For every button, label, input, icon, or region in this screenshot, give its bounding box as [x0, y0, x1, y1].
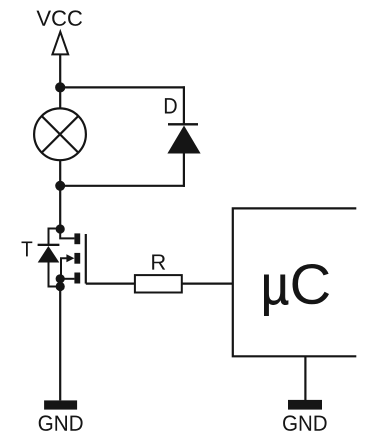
node E body-diode junction dot: [56, 282, 65, 291]
wire node B to diode branch bottom: [60, 185, 185, 187]
wire diode branch upper: [183, 86, 185, 124]
label D: [165, 98, 177, 113]
ground symbol left: [44, 400, 77, 409]
wire lamp to node B: [59, 160, 61, 186]
label uC glyph C: [293, 264, 330, 304]
transistor T gate plate: [85, 234, 87, 284]
wire source node to ground: [59, 287, 61, 401]
resistor R: [135, 275, 182, 292]
transistor T channel segment middle: [74, 253, 80, 264]
transistor T source lead: [60, 278, 74, 280]
label R: [152, 255, 165, 270]
lamp L1: [34, 108, 86, 160]
body diode of T (cathode up): [38, 246, 60, 263]
wire node A to diode branch top: [60, 86, 185, 88]
transistor T drain lead: [60, 229, 74, 238]
transistor T channel segment source: [74, 273, 80, 284]
wire body-diode top stub: [49, 229, 61, 245]
power symbol VCC (open arrow): [52, 32, 68, 55]
wire gate to resistor R: [86, 283, 135, 285]
wire node B to transistor drain node: [59, 186, 61, 229]
wire body-diode bottom stub: [49, 263, 61, 287]
wire node A to lamp: [59, 87, 61, 109]
wire uC to ground: [304, 356, 306, 400]
label T: [22, 242, 33, 257]
ground symbol right: [288, 400, 322, 410]
body diode cathode bar: [38, 244, 60, 246]
node A junction dot: [55, 82, 65, 92]
transistor T channel segment drain: [74, 233, 80, 244]
node B junction dot: [55, 181, 65, 191]
node D source junction dot: [56, 274, 65, 283]
label uC glyph micro: [264, 275, 288, 316]
label GND right: [283, 415, 327, 431]
label GND left: [39, 415, 83, 431]
diode D (freewheel, cathode up): [167, 126, 200, 154]
diode D cathode bar: [168, 123, 198, 125]
transistor T body lead: [61, 258, 68, 279]
transistor T body arrow: [66, 254, 74, 262]
wire VCC arrow to node A: [59, 54, 61, 87]
net label VCC: [37, 10, 83, 26]
wire resistor R to uC: [182, 283, 233, 285]
wire diode branch lower: [183, 154, 185, 187]
microcontroller uC box: [233, 208, 356, 356]
node C drain junction dot: [56, 224, 65, 233]
